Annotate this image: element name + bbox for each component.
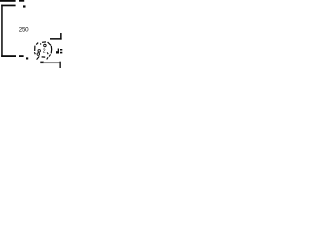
transformer T1 box bottom edge <box>1 55 16 57</box>
wire: bottom horizontal, dark start dash <box>40 62 43 64</box>
wire: bottom right vertical drop <box>59 62 61 68</box>
wire: dashed boundary bottom, corner dot <box>26 57 28 59</box>
tube V1 top arc dot <box>40 43 41 44</box>
wire: horizontal to tube <box>50 38 62 40</box>
voltage label 45 <box>56 49 62 54</box>
wire: dashed boundary top, dash <box>19 0 24 2</box>
tube V1 pin circle bottom-left <box>37 53 40 56</box>
wire: right vertical drop <box>60 33 62 40</box>
tube V1 pin circle top <box>44 44 47 47</box>
svg-text:250: 250 <box>19 26 29 33</box>
tube V1 pin lead comma mark <box>47 52 48 54</box>
wire: dashed boundary bottom, dash <box>19 55 24 57</box>
wire: dashed boundary top, solid segment <box>0 0 16 2</box>
tube V1 pin circle left <box>38 50 41 53</box>
tube V1 lead, dashed diagonal to bottom wire <box>37 54 51 59</box>
svg-text:2: 2 <box>43 48 46 54</box>
transformer T1 box top edge <box>1 5 15 7</box>
transformer T1 box left edge <box>1 5 3 57</box>
tube V1 envelope, dashed circle arcs <box>34 42 51 57</box>
wire: bottom horizontal, faint run <box>44 62 60 63</box>
wire: dashed boundary top, corner dot <box>23 5 26 7</box>
